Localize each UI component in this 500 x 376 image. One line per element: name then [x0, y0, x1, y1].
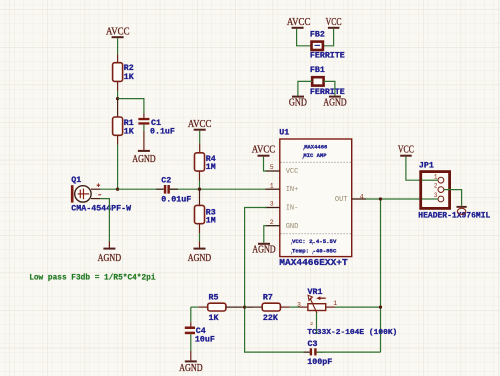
wire JP1 pin2 to AGND [444, 190, 462, 206]
wire junction to R1 [117, 99, 119, 117]
svg-text:5: 5 [270, 164, 274, 171]
capacitor C3 [304, 340, 333, 367]
wire R2 to junction [117, 81, 119, 98]
svg-text:IN-: IN- [286, 205, 299, 213]
pin 2 GND stub [265, 219, 280, 226]
pin 1 IN+ stub [265, 182, 280, 189]
power VCC (FB2) [326, 17, 342, 29]
svg-text:HEADER-1X976MIL: HEADER-1X976MIL [418, 212, 490, 221]
svg-text:1: 1 [434, 173, 438, 180]
svg-text:1: 1 [270, 182, 274, 189]
svg-text:U1: U1 [279, 128, 289, 137]
wire FB1 to AGND [324, 81, 335, 95]
wire VCC to JP1 pin1 [406, 157, 438, 181]
capacitor C4 [185, 327, 215, 345]
wire R3 to AGND [199, 224, 201, 248]
resistor R4 [195, 153, 216, 172]
resistor R3 [195, 205, 216, 225]
svg-text:C2: C2 [161, 176, 171, 185]
svg-text:AVCC: AVCC [287, 17, 311, 28]
svg-text:AGND: AGND [98, 253, 122, 264]
svg-text:0.1uF: 0.1uF [150, 128, 175, 137]
wire C4 branch [191, 307, 199, 326]
svg-text:Low pass F3db = 1/R5*C4*2pi: Low pass F3db = 1/R5*C4*2pi [29, 275, 156, 283]
wire C1 to AGND [143, 125, 145, 150]
svg-text:VCC: VCC [286, 168, 299, 176]
wire R1 to input rail [117, 135, 119, 189]
node junction VR1/OUT [379, 305, 382, 308]
ferrite bead FB1 [310, 66, 345, 97]
svg-text:GND: GND [286, 223, 299, 231]
wire R5 to node [243, 306, 245, 308]
svg-text:1K: 1K [124, 128, 134, 137]
power AVCC (top left) [106, 26, 130, 38]
pin 4 OUT stub [352, 193, 366, 200]
svg-text:FB2: FB2 [310, 31, 325, 40]
svg-text:2: 2 [270, 219, 274, 226]
wire IN- feedback net [245, 208, 310, 353]
svg-text:1K: 1K [209, 314, 219, 323]
svg-text:FERRITE: FERRITE [310, 51, 345, 60]
svg-text:IN+: IN+ [286, 186, 299, 194]
svg-text:JP1: JP1 [419, 161, 434, 170]
svg-text:C3: C3 [308, 340, 318, 349]
pin 5 VCC stub [265, 164, 280, 171]
wire C3 to OUT net [317, 351, 381, 353]
resistor R2 [113, 63, 134, 82]
svg-text:10uF: 10uF [195, 336, 215, 345]
svg-text:1M: 1M [206, 217, 216, 226]
power AVCC (U1 pin5) [252, 145, 276, 157]
wire VCC to FB2 [323, 29, 334, 46]
wire JP1 pin1 inside [422, 179, 438, 181]
ground AGND (C4) [179, 360, 203, 374]
ground AGND (FB1) [323, 96, 347, 109]
svg-text:Temp: -40-85C: Temp: -40-85C [292, 248, 337, 255]
svg-text:1K: 1K [124, 73, 134, 82]
svg-text:AVCC: AVCC [106, 26, 130, 37]
svg-text:AVCC: AVCC [188, 119, 212, 130]
wire pin2 to AGND [264, 226, 267, 243]
svg-text:OUT: OUT [335, 196, 348, 204]
wire AVCC to R4 [199, 131, 201, 153]
wire VR1 to OUT net [335, 306, 381, 308]
ground AGND (C1) [132, 150, 156, 165]
svg-text:2: 2 [434, 183, 438, 190]
capacitor C2 [156, 176, 191, 204]
ground GND (FB1) [289, 96, 307, 109]
svg-text:AGND: AGND [188, 253, 212, 264]
ferrite bead FB2 [310, 31, 345, 61]
svg-text:R5: R5 [209, 294, 219, 303]
wire FB1 to GND [298, 81, 312, 95]
trimmer VR1 [297, 288, 397, 337]
power AVCC (FB2) [287, 17, 311, 29]
node junction feedback [243, 305, 246, 308]
svg-text:VCC: VCC [398, 145, 414, 156]
svg-text:22K: 22K [263, 314, 278, 323]
svg-text:GND: GND [289, 98, 307, 109]
node junction OUT [379, 197, 382, 200]
svg-text:3: 3 [434, 192, 438, 199]
wire rail to R3 [199, 189, 201, 205]
wire node to R7 [245, 306, 253, 308]
ground AGND (mic) [98, 248, 122, 265]
wire C2 to IN+ [169, 188, 265, 190]
capacitor C1 [138, 118, 175, 137]
wire C4 to AGND [190, 334, 192, 360]
wire junction to C1 [118, 99, 144, 118]
op-amp U1 MAX4466 [279, 128, 351, 267]
wire R7 to VR1 [290, 306, 300, 308]
svg-text:2: 2 [310, 321, 313, 327]
svg-text:1: 1 [333, 300, 337, 307]
svg-text:R7: R7 [263, 294, 273, 303]
svg-text:100pF: 100pF [307, 358, 332, 367]
svg-text:0.01uF: 0.01uF [161, 195, 191, 204]
svg-text:VCC: VCC [326, 17, 342, 28]
svg-text:FB1: FB1 [310, 66, 325, 75]
wire OUT net [366, 199, 438, 352]
microphone Q1 [71, 176, 131, 213]
ground AGND (R3) [188, 248, 212, 265]
connector JP1 [418, 161, 490, 220]
svg-text:CMA-4544PF-W: CMA-4544PF-W [71, 204, 131, 213]
wire R4 to rail [199, 171, 201, 189]
node junction R4/R3/rail [198, 188, 201, 191]
svg-text:AGND: AGND [323, 98, 347, 109]
ground AGND (JP1) [457, 206, 467, 214]
wire AVCC to pin5 [264, 157, 267, 171]
svg-text:AGND: AGND [132, 154, 156, 165]
resistor R1 [113, 117, 134, 137]
svg-text:MAX4466: MAX4466 [304, 143, 327, 150]
node junction R1/R2/C1 [116, 97, 119, 100]
resistor R7 [247, 294, 290, 323]
svg-text:MAX4466EXX+T: MAX4466EXX+T [279, 257, 348, 268]
svg-text:R2: R2 [124, 64, 134, 73]
svg-text:TC33X-2-104E (100K): TC33X-2-104E (100K) [307, 329, 397, 337]
svg-text:4: 4 [360, 193, 364, 200]
svg-text:AGND: AGND [252, 245, 276, 256]
power VCC (JP1) [398, 145, 414, 157]
wire mic + to rail [91, 188, 118, 190]
svg-text:AVCC: AVCC [252, 145, 276, 156]
node junction mic/R1/C2 [116, 188, 119, 191]
svg-text:VCC: 2.4-5.5V: VCC: 2.4-5.5V [292, 238, 337, 245]
svg-text:MIC AMP: MIC AMP [303, 152, 327, 159]
svg-text:3: 3 [270, 201, 274, 208]
wire JP1 pin3 inside [422, 198, 438, 200]
svg-text:Q1: Q1 [71, 176, 81, 185]
wire AVCC to R2 [117, 38, 119, 63]
wire mic - to AGND [91, 199, 110, 248]
svg-text:AGND: AGND [179, 363, 203, 374]
svg-text:1M: 1M [206, 163, 216, 172]
pin 3 IN- stub [265, 201, 280, 208]
resistor R5 [198, 294, 242, 323]
ground AGND (U1 pin2) [252, 243, 276, 256]
wire rail to C2 [118, 188, 164, 190]
wire AVCC to FB2 [297, 29, 312, 46]
svg-text:R1: R1 [124, 119, 134, 128]
power AVCC (R4) [188, 119, 212, 131]
